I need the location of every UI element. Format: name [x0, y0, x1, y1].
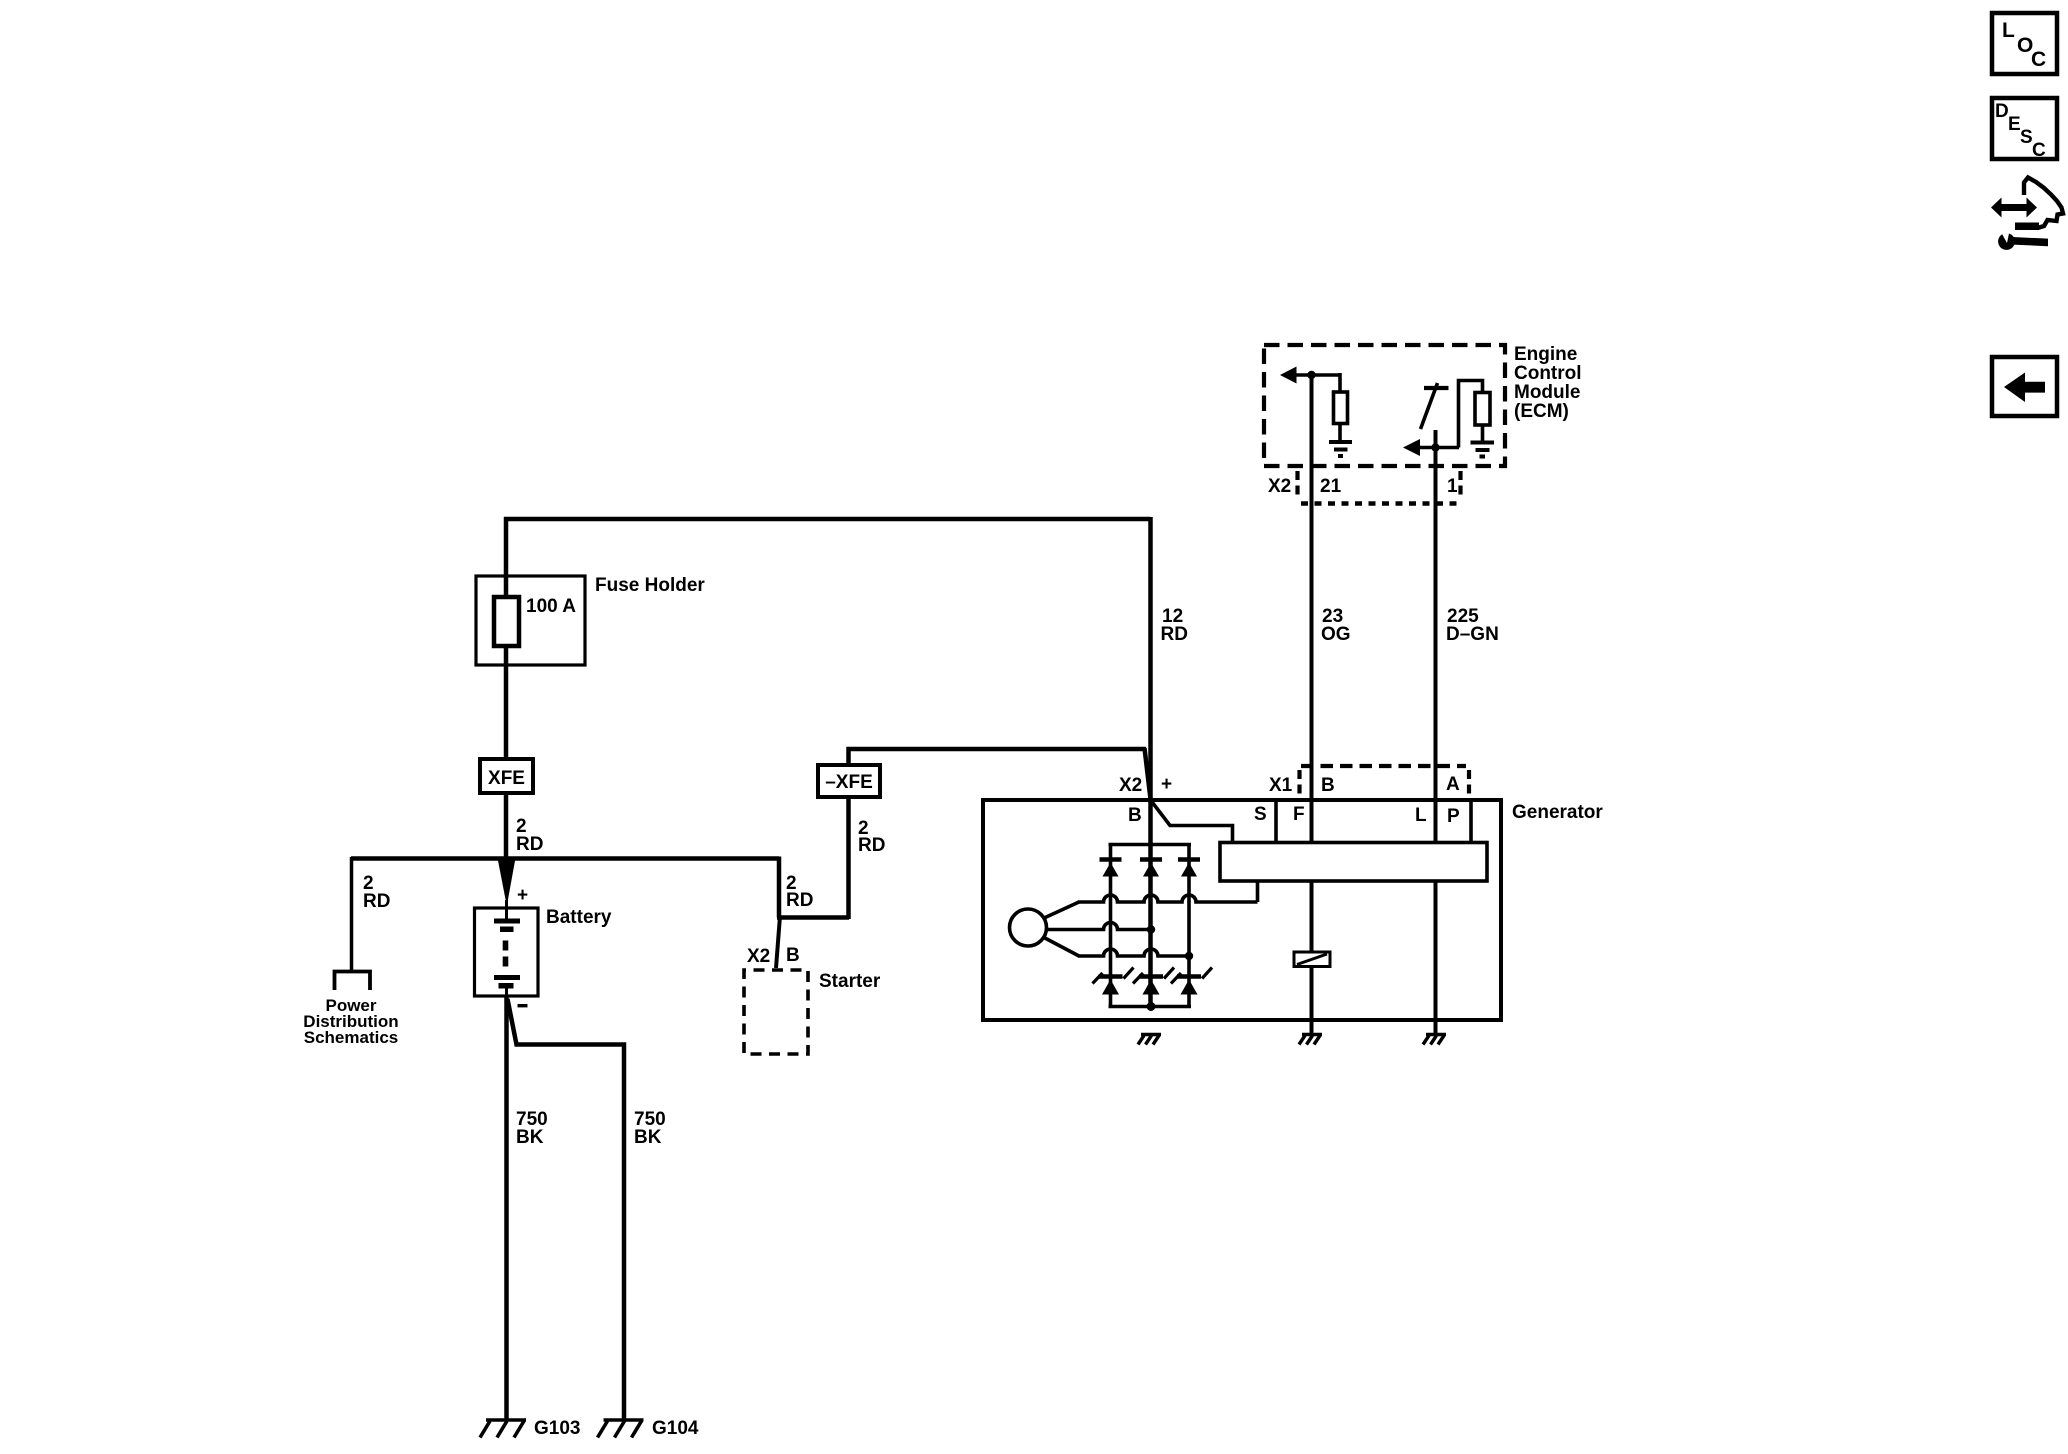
avalanche diode D4 (bottom, col 1)	[1093, 968, 1134, 995]
svg-text:X2: X2	[1119, 775, 1142, 796]
svg-text:–XFE: –XFE	[825, 772, 873, 793]
ECM right arrow (signal continues)	[1403, 439, 1420, 456]
junction node pin 1	[1431, 443, 1439, 451]
svg-text:+: +	[517, 885, 528, 906]
wire: resistor to ground	[1481, 425, 1485, 441]
ground G103	[480, 1420, 526, 1438]
svg-text:+: +	[1161, 774, 1172, 795]
wire: 2 RD into starter B terminal	[776, 916, 780, 968]
svg-text:OG: OG	[1321, 624, 1351, 645]
diode D3 (top, col 3)	[1178, 860, 1200, 877]
svg-text:P: P	[1447, 806, 1460, 827]
wire stub out of battery negative	[505, 988, 508, 1000]
junction node rectifier bottom	[1147, 1002, 1156, 1011]
diode D1 (top, col 1)	[1100, 860, 1122, 877]
wire: stator phase 3 diagonal	[1043, 937, 1079, 956]
connector row bottom dotted line	[1301, 501, 1459, 506]
wire: 750 BK battery negative to G103	[504, 996, 509, 1419]
wire: stator phase 1 diagonal	[1043, 902, 1079, 919]
fuse element F1 100A	[494, 597, 519, 646]
wire: ECM pin 1 / 225 D-GN down to generator L	[1434, 430, 1438, 843]
rectifier bridge right column	[1187, 843, 1191, 1007]
terminal divider S	[1274, 800, 1278, 843]
svg-text:Battery: Battery	[546, 907, 612, 928]
diode D2 (top, col 2)	[1140, 860, 1162, 877]
generator connector X1 dashed top line	[1301, 764, 1466, 768]
ground G104	[598, 1420, 644, 1438]
svg-text:Fuse Holder: Fuse Holder	[595, 575, 705, 596]
svg-text:100 A: 100 A	[526, 596, 576, 617]
svg-text:B: B	[786, 945, 800, 966]
svg-text:F: F	[1293, 804, 1305, 825]
ECM dashed box	[1264, 345, 1505, 466]
icon: back arrow box	[1992, 357, 2057, 416]
wire: F terminal below regulator to field	[1310, 881, 1314, 1034]
connector separator dash (left)	[1295, 471, 1299, 495]
icon LOC box	[1992, 13, 2057, 74]
svg-text:XFE: XFE	[488, 768, 525, 789]
wire: 12 RD vertical drop into generator B terminal	[1148, 517, 1153, 1008]
svg-text:D: D	[1995, 101, 2009, 122]
wire: B terminal branch to regulator	[1151, 800, 1233, 844]
battery plate short bottom	[499, 983, 514, 989]
ECM internal resistor (pin 1)	[1475, 393, 1490, 426]
ECM internal resistor (pin 21 pull-down)	[1334, 392, 1348, 424]
svg-text:D–GN: D–GN	[1446, 624, 1499, 645]
ECM switch fixed contact bar	[1424, 386, 1449, 390]
svg-text:RD: RD	[786, 890, 813, 911]
avalanche diode D6 (bottom, col 3)	[1171, 968, 1212, 995]
wire: -XFE horizontal to generator B	[847, 747, 1147, 752]
voltage regulator block	[1220, 843, 1487, 882]
svg-text:RD: RD	[363, 891, 390, 912]
svg-text:S: S	[2020, 127, 2033, 148]
battery positive terminal arrowhead	[498, 858, 516, 906]
battery plate short top	[500, 927, 514, 933]
field coil box	[1294, 952, 1330, 967]
wire: feedback loop to resistor	[1459, 381, 1483, 448]
off-page connector staple to Power Distribution Schematics	[335, 972, 371, 991]
svg-text:Schematics: Schematics	[304, 1028, 399, 1047]
wire: -XFE vertical	[846, 747, 851, 919]
svg-text:Engine: Engine	[1514, 344, 1577, 365]
svg-text:C: C	[2032, 140, 2046, 161]
battery plate long bottom	[494, 975, 520, 980]
svg-text:RD: RD	[1161, 624, 1188, 645]
wire: diagonal joining 12 RD at generator	[1145, 748, 1151, 799]
svg-text:B: B	[1128, 805, 1142, 826]
ground (generator B rectifier)	[1138, 1035, 1161, 1045]
terminal divider P	[1469, 800, 1473, 843]
wire: regulator step connection	[1256, 879, 1260, 902]
generator box	[983, 800, 1501, 1020]
junction node phase 3	[1185, 952, 1193, 960]
wire: resistor to ground	[1338, 424, 1342, 442]
svg-text:G104: G104	[652, 1418, 699, 1439]
svg-text:1: 1	[1447, 476, 1458, 497]
svg-text:BK: BK	[634, 1127, 662, 1148]
wire: stator phase 3	[1078, 949, 1189, 956]
wire: ECM internal horizontal pin 21	[1294, 373, 1340, 377]
svg-text:B: B	[1321, 775, 1335, 796]
svg-text:Module: Module	[1514, 382, 1581, 403]
ground (generator L circuit)	[1423, 1035, 1446, 1045]
rectifier bottom rail	[1109, 1005, 1192, 1009]
wire stub into battery	[505, 900, 508, 921]
svg-text:S: S	[1254, 804, 1267, 825]
svg-text:Control: Control	[1514, 363, 1582, 384]
svg-text:E: E	[2008, 114, 2021, 135]
wire: stator phase 1 with crossovers to regulator	[1078, 895, 1258, 902]
wire: branch to power distribution	[350, 857, 354, 971]
field coil diagonal	[1297, 954, 1327, 965]
connector X1 left bracket dashes	[1297, 770, 1301, 794]
wire: horizontal joining -XFE drop	[777, 915, 849, 920]
wire: ECM internal horizontal pin 1	[1418, 446, 1459, 450]
svg-text:(ECM): (ECM)	[1514, 401, 1569, 422]
svg-text:21: 21	[1320, 476, 1342, 497]
connector tag XFE	[480, 759, 533, 793]
svg-text:L: L	[1415, 805, 1427, 826]
svg-text:RD: RD	[516, 834, 543, 855]
ECM internal ground (left)	[1329, 442, 1352, 456]
battery G1 box	[475, 908, 539, 996]
svg-text:C: C	[2031, 48, 2046, 71]
wire: L terminal below regulator to ground	[1434, 881, 1438, 1034]
battery cell dotted divider	[503, 941, 509, 951]
stator winding circle	[1010, 909, 1047, 946]
svg-text:L: L	[2002, 19, 2015, 42]
wire: vertical through fuse holder and XFE down to battery junction	[504, 517, 509, 858]
ECM left arrow (signal continues)	[1280, 367, 1297, 384]
fuse holder box	[476, 576, 585, 665]
icon DESC box	[1992, 98, 2057, 159]
svg-text:RD: RD	[858, 835, 885, 856]
svg-text:G103: G103	[534, 1418, 580, 1439]
svg-text:Generator: Generator	[1512, 802, 1603, 823]
svg-text:BK: BK	[516, 1127, 544, 1148]
connector separator dash (right)	[1458, 471, 1462, 495]
svg-text:Starter: Starter	[819, 971, 881, 992]
starter dashed box	[744, 970, 808, 1054]
icon: harness repair (double arrow, connector outline, wrench)	[1991, 178, 2063, 250]
svg-text:X2: X2	[1268, 476, 1291, 497]
ECM internal ground (right)	[1471, 443, 1495, 457]
wire: 750 BK branch to G104	[508, 999, 625, 1419]
wire: ECM pin 21 / 23 OG down to generator F	[1310, 375, 1314, 843]
junction node pin 21	[1307, 371, 1315, 379]
ECM switch blade	[1421, 383, 1438, 429]
junction node phase 2	[1147, 925, 1155, 933]
wire: horizontal branch at battery positive	[351, 856, 779, 861]
connector tag -XFE	[818, 765, 880, 797]
battery plate long top	[494, 919, 520, 924]
rectifier top rail	[1109, 843, 1192, 847]
wire: stub to internal resistor	[1338, 373, 1342, 393]
svg-text:X2: X2	[747, 946, 770, 967]
svg-text:A: A	[1446, 774, 1460, 795]
avalanche diode D5 (bottom, col 2)	[1133, 968, 1174, 995]
connector X1 right bracket dashes	[1467, 770, 1471, 794]
rectifier bridge left column	[1109, 843, 1113, 1007]
wire: battery positive feed, top horizontal 12 RD run	[504, 517, 1151, 522]
wire: stator phase 2	[1047, 923, 1152, 930]
ground (generator F circuit)	[1299, 1035, 1322, 1045]
label minus	[518, 1004, 528, 1007]
wire: drop from battery feed toward starter	[777, 857, 782, 918]
svg-text:X1: X1	[1269, 775, 1293, 796]
